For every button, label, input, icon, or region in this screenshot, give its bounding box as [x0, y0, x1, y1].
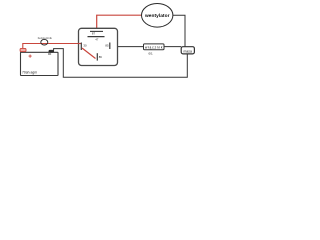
battery box [21, 52, 59, 75]
wire black ground return rail [54, 49, 188, 78]
battery minus terminal [49, 50, 54, 52]
ground box masa [181, 47, 194, 54]
svg-text:30: 30 [83, 43, 87, 47]
wire black fan to ground box [173, 15, 185, 47]
relay pin 85 terminal bar [109, 43, 111, 50]
battery plus terminal [20, 48, 26, 51]
relay fixed contact bar [88, 36, 105, 38]
switch box wlacznik [144, 44, 165, 50]
fan circle wentylator [142, 4, 173, 28]
svg-text:70ah agm: 70ah agm [22, 71, 37, 75]
svg-text:masa: masa [184, 49, 192, 53]
svg-text:87: 87 [92, 32, 96, 36]
relay box [79, 28, 118, 65]
svg-text:0/1: 0/1 [149, 51, 154, 55]
background [0, 0, 200, 81]
wire black relay pin 85 to switch to ground [110, 46, 181, 48]
relay pin 87 terminal bar [90, 30, 103, 32]
battery plus sign [29, 55, 32, 58]
wire red battery plus to relay pin 30 (via fuse) [23, 44, 82, 49]
relay pin 86 terminal bar [96, 53, 98, 60]
svg-text:bezpiecznik: bezpiecznik [38, 36, 53, 40]
svg-text:włącznik: włącznik [145, 45, 163, 49]
relay pin 30 terminal bar [80, 43, 82, 51]
battery minus sign [48, 53, 51, 55]
wire red relay pin 87 to fan [97, 15, 142, 28]
svg-text:85: 85 [105, 44, 109, 48]
wire red stub to pin 30 inside relay [78, 43, 81, 45]
relay switch arm red [82, 48, 96, 59]
fuse circle [41, 39, 48, 45]
svg-text:wentylator: wentylator [144, 13, 170, 19]
svg-text:86: 86 [99, 55, 103, 59]
